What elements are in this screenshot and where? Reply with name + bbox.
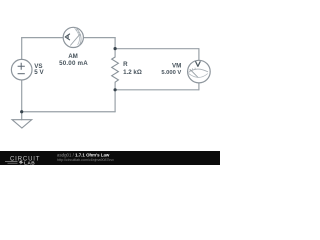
ground node junction dot [20, 110, 23, 113]
wire node B down to lower-left rail [114, 90, 116, 112]
letter V in voltmeter [196, 62, 200, 67]
svg-text:LAB: LAB [24, 160, 35, 165]
ground [12, 120, 32, 128]
wire voltmeter bottom to bottom-right corner [198, 83, 200, 90]
svg-text:R: R [123, 61, 128, 68]
wire VS bottom to ground junction [21, 80, 23, 112]
letter A in ammeter (rotated, apex left) [65, 34, 69, 40]
gauge needle [190, 70, 198, 78]
voltage source VS [11, 59, 32, 80]
node B junction dot [114, 88, 117, 91]
svg-text:VM: VM [172, 62, 181, 69]
gauge inner arc [75, 28, 80, 45]
gauge ticks [190, 68, 196, 72]
wire top-left vertical from corner to VS top [21, 38, 23, 60]
wire ammeter right to corner above resistor [83, 37, 115, 39]
svg-text:1.2 kΩ: 1.2 kΩ [123, 69, 142, 76]
svg-text:5.000 V: 5.000 V [161, 70, 181, 76]
wire top-right corner down to voltmeter top [198, 49, 200, 61]
gauge needle [70, 34, 80, 46]
gauge outer arc [76, 27, 82, 46]
wire top-left horizontal corner to ammeter [22, 37, 64, 39]
gauge outer arc [189, 69, 209, 72]
ammeter AM [63, 27, 83, 47]
gauge ticks [76, 29, 81, 35]
wire resistor bottom to node B [114, 82, 116, 90]
CircuitLab logo [5, 156, 40, 166]
svg-text:http://circuitlab.com/c6njma90: http://circuitlab.com/c6njma9087kvv [57, 158, 114, 162]
svg-text:5 V: 5 V [34, 69, 44, 76]
wire corner down to node A [114, 38, 116, 49]
svg-text:AM: AM [68, 53, 78, 60]
wire node A down to resistor top [114, 49, 116, 57]
wire lower-left rail to ground junction [22, 111, 115, 113]
svg-text:asdg01 / 1.7.1 Ohm's Law: asdg01 / 1.7.1 Ohm's Law [57, 152, 110, 157]
voltmeter VM [188, 60, 211, 83]
resistor R [112, 57, 119, 82]
node A junction dot [114, 47, 117, 50]
svg-text:50.00 mA: 50.00 mA [59, 60, 88, 67]
wire ground junction to ground symbol [21, 112, 23, 120]
footer bar [0, 151, 220, 165]
gauge inner arc [189, 74, 208, 78]
wire node A to top-right corner [115, 48, 199, 50]
wire bottom-right rail to node B [115, 89, 199, 91]
